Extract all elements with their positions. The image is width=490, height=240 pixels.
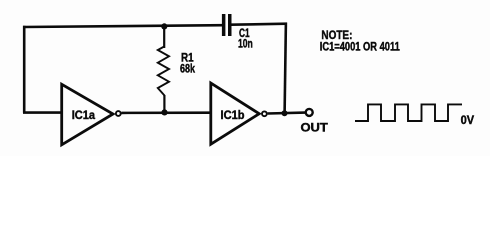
svg-text:IC1a: IC1a [72, 108, 96, 122]
wire right vertical [285, 23, 286, 114]
wire top rail left segment [23, 25, 223, 27]
svg-text:10n: 10n [238, 36, 253, 50]
node junction top (R1 / top rail) [161, 23, 167, 29]
wire IC1b output to OUT terminal [268, 111, 306, 115]
square wave symbol [355, 104, 462, 121]
wire top rail right segment [231, 24, 287, 25]
wire lower-left horizontal to IC1a input [23, 111, 62, 114]
inverter IC1b output bubble [262, 111, 267, 116]
resistor R1 zigzag [158, 47, 169, 96]
OUT terminal circle [306, 109, 313, 116]
node junction right (feedback / output) [282, 110, 288, 116]
inverter IC1a triangle [62, 84, 113, 145]
node junction bottom (R1 / mid rail) [161, 109, 167, 115]
svg-text:IC1b: IC1b [221, 108, 245, 122]
inverter IC1a output bubble [116, 111, 121, 116]
wire resistor bottom lead [163, 95, 165, 113]
wire left vertical [23, 26, 26, 113]
wire resistor top lead [163, 26, 165, 48]
capacitor C1 left plate [222, 14, 226, 36]
inverter IC1b triangle [211, 83, 259, 144]
svg-text:68k: 68k [180, 62, 195, 76]
svg-text:OUT: OUT [301, 120, 329, 134]
capacitor C1 right plate [228, 14, 232, 36]
svg-text:0V: 0V [461, 113, 475, 127]
wire IC1a output to IC1b input [121, 111, 211, 114]
svg-text:IC1=4001 OR 4011: IC1=4001 OR 4011 [320, 39, 400, 53]
